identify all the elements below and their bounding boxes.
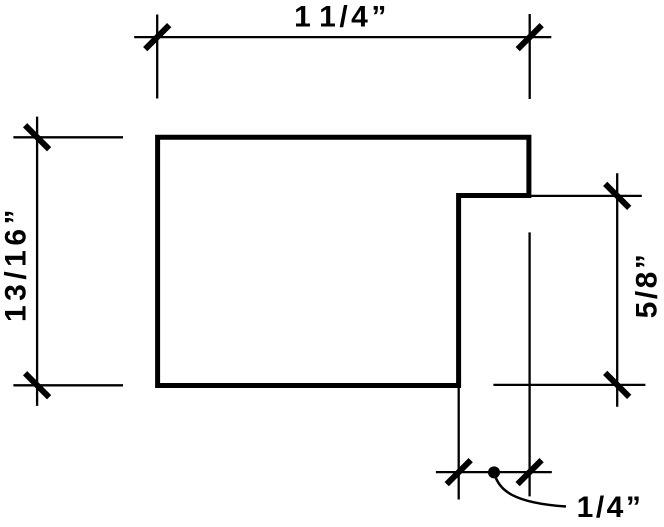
left dim tick top (25, 125, 49, 149)
top dim extension line right (529, 14, 531, 99)
top dim extension line left (156, 15, 158, 99)
bottom dimension line (436, 471, 552, 473)
right dim tick top (605, 184, 629, 208)
bottom dim leader (495, 474, 567, 507)
top dim tick right (518, 25, 542, 49)
bottom dim dot (488, 466, 500, 478)
bottom dim extension line left (458, 388, 460, 500)
right dim extension line bottom (493, 384, 645, 386)
right dimension line (616, 173, 618, 406)
right dim extension line top (531, 195, 641, 197)
bottom dim tick right (518, 460, 542, 484)
left dim tick bottom (25, 373, 49, 397)
profile outline (158, 137, 529, 385)
svg-text:13/16”: 13/16” (0, 205, 33, 322)
svg-text:5/8”: 5/8” (631, 252, 664, 319)
bottom dim extension line right (528, 232, 530, 496)
top dim tick left (145, 25, 169, 49)
top dimension line (134, 36, 551, 38)
right dim tick bottom (605, 373, 629, 397)
left dimension line (36, 117, 38, 406)
left dim extension line top (13, 136, 123, 138)
left dim extension line bottom (13, 384, 123, 386)
svg-text:1 1/4”: 1 1/4” (294, 1, 390, 34)
svg-text:1/4”: 1/4” (577, 491, 644, 524)
bottom dim tick left (447, 460, 471, 484)
